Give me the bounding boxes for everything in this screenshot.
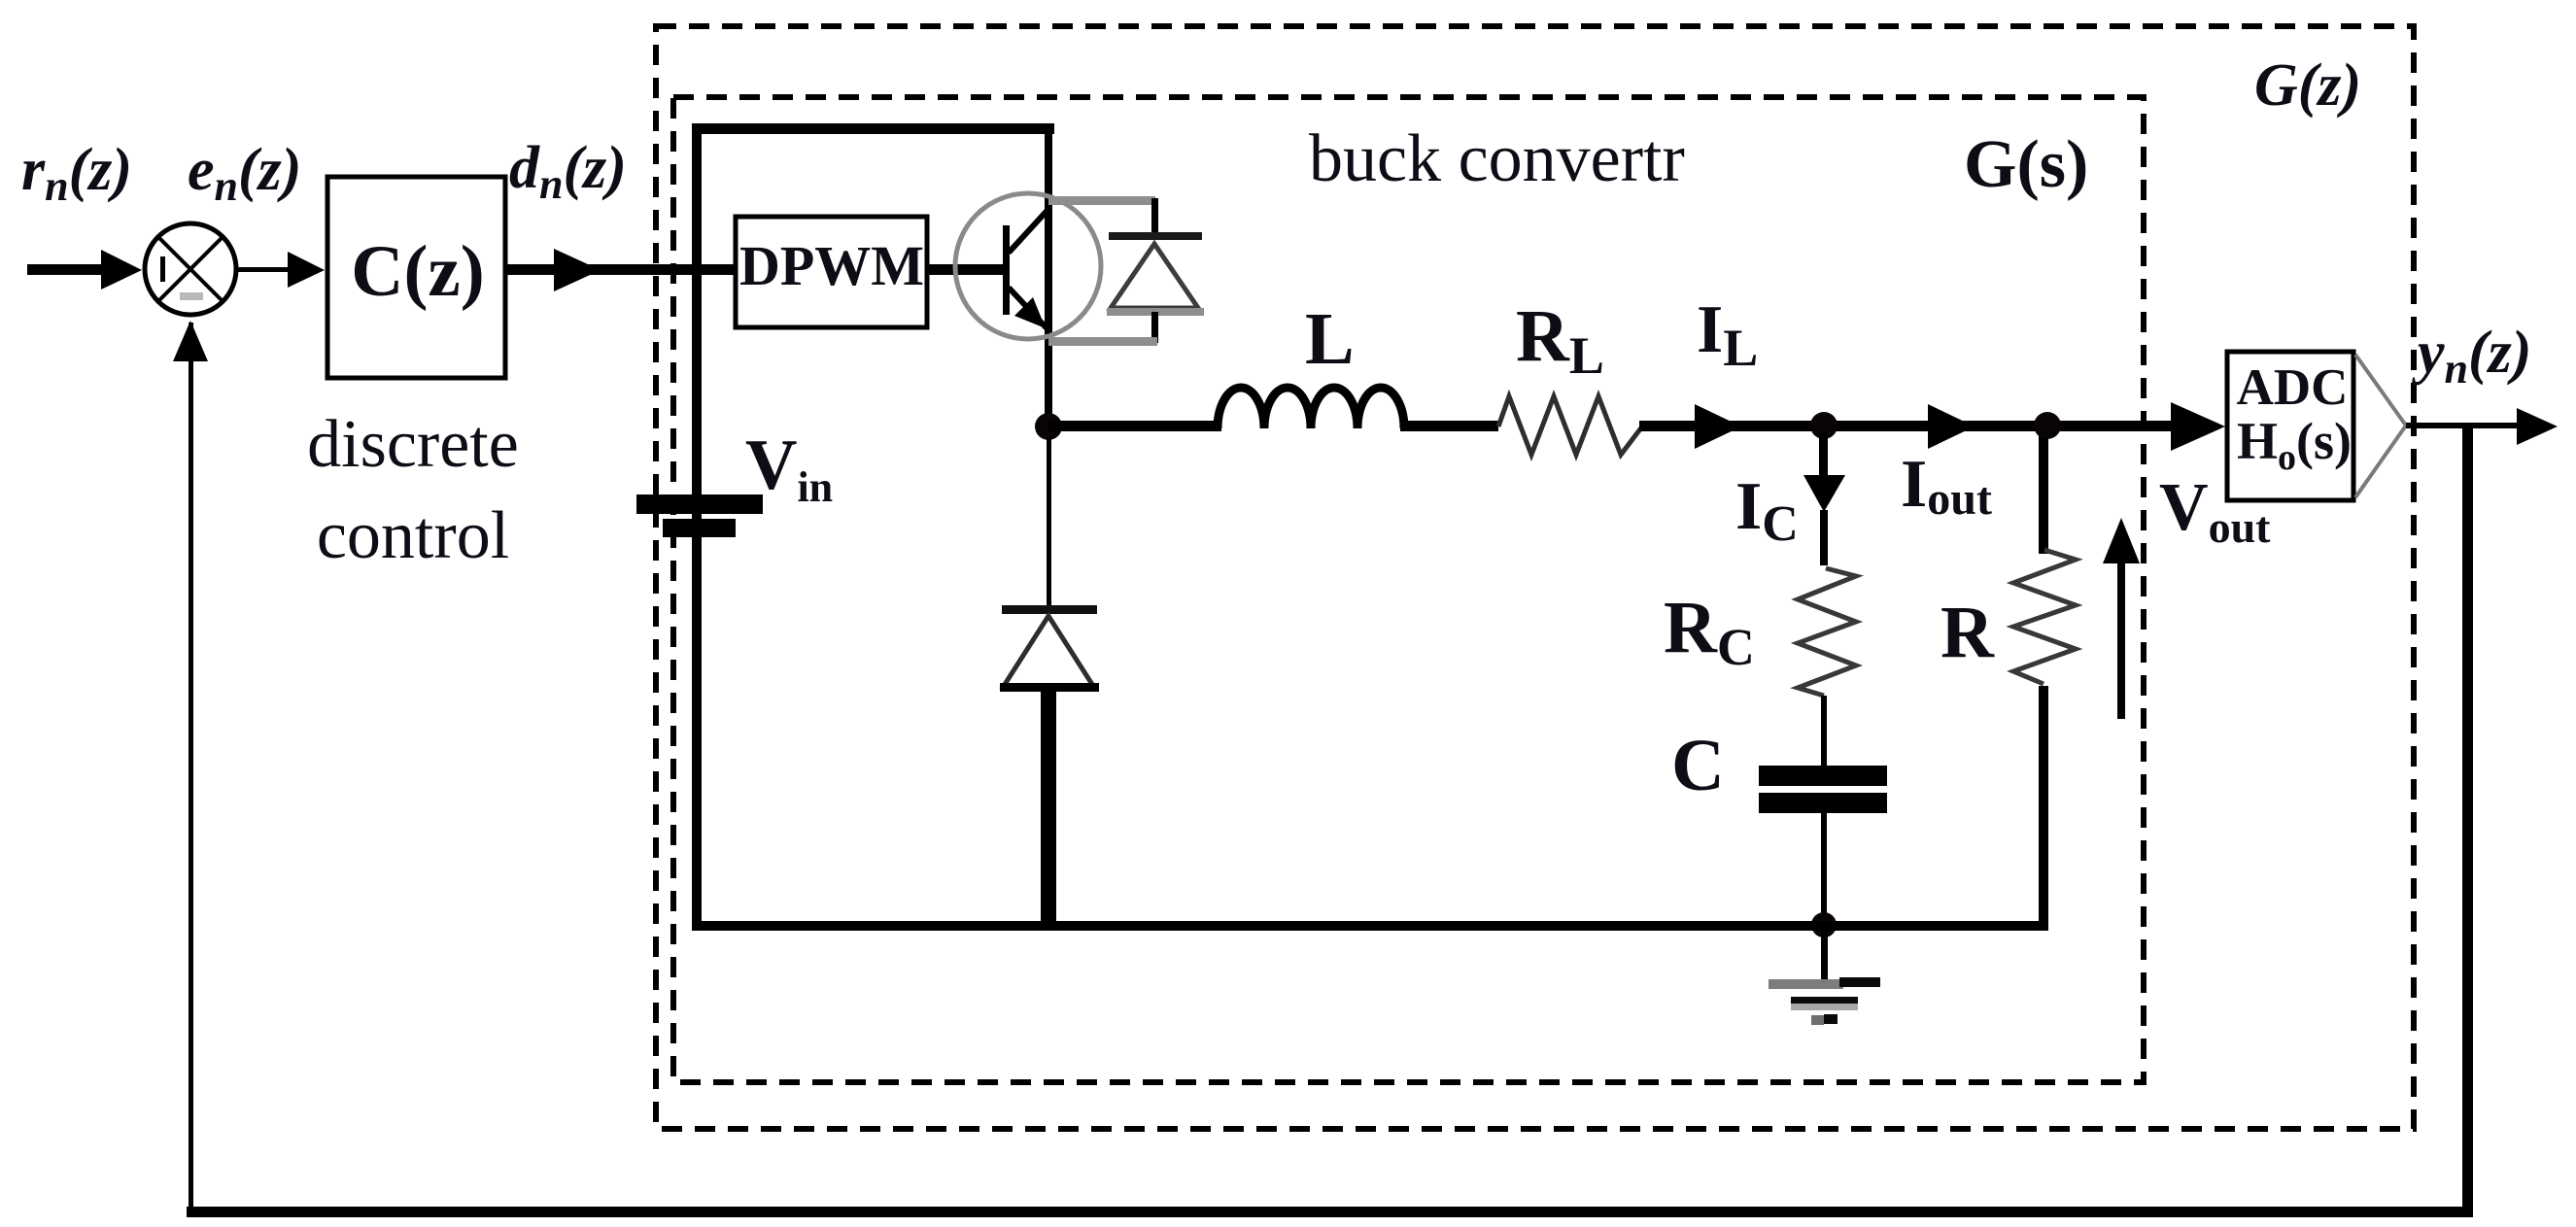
block ADC H_o(s) box [2227, 352, 2353, 500]
transistor Q1 collector diagonal [1009, 207, 1050, 253]
svg-text:discrete: discrete [307, 407, 519, 482]
load branch upper vertical [2039, 431, 2048, 554]
svg-text:G(z): G(z) [2254, 52, 2361, 119]
arrowhead I_C pointing down [1803, 475, 1845, 512]
wire summing junction to C(z) [238, 267, 292, 272]
node B junction dot [1810, 412, 1838, 439]
svg-text:Iout: Iout [1901, 447, 1992, 525]
minus sign inside summing junction (faint) [180, 292, 203, 300]
ground bar 2 [1791, 997, 1858, 1004]
wire R_L to node B [1639, 421, 2175, 431]
wire feedback left vertical [189, 323, 193, 1211]
wire power loop left vertical [692, 123, 702, 926]
wire feedback right vertical [2462, 425, 2473, 1217]
ADC chevron lower diagonal [2355, 426, 2406, 497]
diode D2 triangle [1004, 616, 1093, 686]
diode D2 lower stem [1041, 686, 1056, 929]
diode D1 cathode bar [1109, 232, 1202, 240]
V_out sense arrow stem [2117, 559, 2125, 719]
arrowhead into C(z) [288, 252, 325, 288]
svg-text:Vin: Vin [745, 426, 833, 511]
capacitor branch stem [1819, 431, 1828, 478]
node A junction dot [1035, 413, 1062, 440]
svg-text:dn(z): dn(z) [509, 135, 627, 208]
wire capacitor to node C [1821, 813, 1827, 922]
ground bar 1 [1769, 979, 1843, 989]
arrowhead into summing junction [101, 250, 142, 290]
ADC chevron upper diagonal [2355, 355, 2406, 426]
diode D1 bottom connector (gray) [1048, 337, 1157, 346]
node: reference input wire r_n [27, 264, 109, 275]
arrowhead output right [2517, 408, 2558, 445]
capacitor C top plate [1759, 766, 1887, 786]
svg-text:ADC: ADC [2237, 359, 2349, 416]
diode D2 anode wire [1047, 437, 1051, 606]
inner dashed box G(s) buck converter [673, 97, 2144, 1082]
node B2 junction dot [2034, 412, 2061, 439]
wire inductor to R_L [1400, 421, 1498, 431]
svg-text:IC: IC [1735, 469, 1799, 552]
diode D2 anode base bar [1000, 683, 1099, 692]
inductor L coils [1218, 388, 1404, 428]
diode D1 top connector (gray) [1048, 196, 1155, 205]
svg-text:IL: IL [1697, 292, 1758, 377]
wire R_C to capacitor [1821, 696, 1827, 767]
wire feedback bottom horizontal [187, 1207, 2473, 1217]
node C junction dot [1811, 912, 1837, 937]
svg-text:RC: RC [1664, 587, 1755, 676]
arrowhead feedback into summing junction [173, 321, 208, 361]
arrowhead I_out on wire [1928, 404, 1975, 449]
svg-text:rn(z): rn(z) [21, 137, 132, 210]
ground bar 3 [1811, 1015, 1824, 1025]
ground stub [1821, 931, 1828, 982]
wire ADC output [2406, 423, 2526, 428]
summing junction circle [145, 223, 236, 315]
transistor Q1 circle [955, 193, 1101, 339]
diode D1 anode bar (gray) [1107, 308, 1204, 316]
diode D1 upper stub [1151, 198, 1158, 237]
diode D1 lower stub [1151, 312, 1158, 343]
svg-text:C(z): C(z) [351, 231, 484, 312]
resistor R_C zigzag [1798, 568, 1856, 696]
capacitor branch thin segment [1820, 510, 1828, 565]
svg-text:C: C [1671, 725, 1725, 806]
capacitor C bottom plate [1759, 793, 1887, 813]
block DPWM box [736, 217, 927, 327]
wire collector vertical [1045, 123, 1052, 426]
load branch lower vertical [2039, 686, 2048, 926]
summing junction X diagonal 1 [158, 237, 223, 301]
svg-text:buck convertr: buck convertr [1309, 121, 1685, 196]
battery V_in long plate [636, 494, 763, 514]
V_out sense arrowhead up [2103, 518, 2140, 563]
svg-text:yn(z): yn(z) [2411, 320, 2531, 392]
wire node A to inductor [1048, 421, 1221, 431]
svg-text:DPWM: DPWM [739, 234, 924, 297]
resistor R zigzag [2013, 550, 2076, 684]
transistor Q1 emitter arrowhead [1014, 297, 1046, 328]
battery V_in short plate [663, 519, 736, 537]
svg-text:R: R [1941, 592, 1995, 673]
svg-text:G(s): G(s) [1964, 127, 2088, 202]
wire C(z) to DPWM [505, 264, 736, 275]
wire bottom power bar [692, 921, 2048, 931]
transistor Q1 base bar [1003, 225, 1010, 315]
arrowhead into ADC [2171, 402, 2225, 451]
svg-text:control: control [317, 498, 509, 573]
arrowhead on wire after C(z) [554, 249, 601, 291]
diode D1 triangle [1111, 244, 1198, 308]
diode D2 cathode bar [1002, 605, 1097, 614]
wire power loop top bar [692, 123, 1054, 134]
outer dashed box G(z) [656, 26, 2414, 1129]
resistor R_L zigzag [1498, 396, 1642, 455]
wire DPWM to transistor base [927, 264, 1007, 275]
plus sign inside summing junction [160, 256, 165, 282]
arrowhead I_L on wire [1695, 404, 1741, 449]
transistor Q1 emitter diagonal [1009, 288, 1050, 332]
summing junction X diagonal 2 [158, 237, 223, 301]
svg-text:RL: RL [1516, 295, 1604, 385]
svg-text:L: L [1305, 298, 1355, 380]
block C(z) box [327, 177, 505, 378]
svg-text:en(z): en(z) [188, 137, 301, 210]
